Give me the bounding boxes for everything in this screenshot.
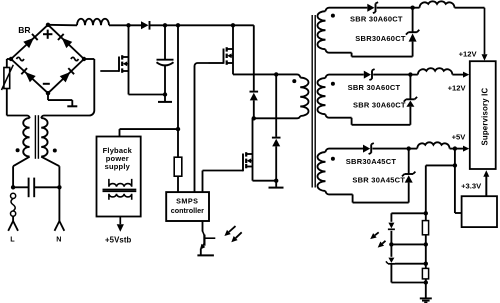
svg-text:+12V: +12V bbox=[448, 83, 467, 92]
svg-text:+12V: +12V bbox=[459, 50, 478, 59]
svg-text:SBR30A60CT: SBR30A60CT bbox=[355, 34, 406, 43]
svg-text:L: L bbox=[10, 235, 15, 244]
svg-text:SBR 30A60CT: SBR 30A60CT bbox=[353, 100, 406, 109]
svg-text:N: N bbox=[56, 235, 61, 244]
svg-text:supply: supply bbox=[105, 162, 131, 171]
svg-text:SBR 30A60CT: SBR 30A60CT bbox=[350, 14, 403, 23]
svg-text:controller: controller bbox=[171, 206, 204, 215]
svg-text:SMPS: SMPS bbox=[176, 197, 198, 206]
svg-text:BR: BR bbox=[18, 25, 30, 35]
svg-text:SBR 30A45CT: SBR 30A45CT bbox=[352, 176, 405, 185]
svg-text:+5Vstb: +5Vstb bbox=[105, 235, 132, 244]
svg-text:SBR30A45CT: SBR30A45CT bbox=[346, 157, 397, 166]
svg-text:SBR 30A60CT: SBR 30A60CT bbox=[348, 83, 401, 92]
svg-text:+5V: +5V bbox=[452, 133, 467, 142]
svg-text:Supervisory IC: Supervisory IC bbox=[481, 88, 490, 146]
svg-text:+3.3V: +3.3V bbox=[461, 182, 482, 191]
